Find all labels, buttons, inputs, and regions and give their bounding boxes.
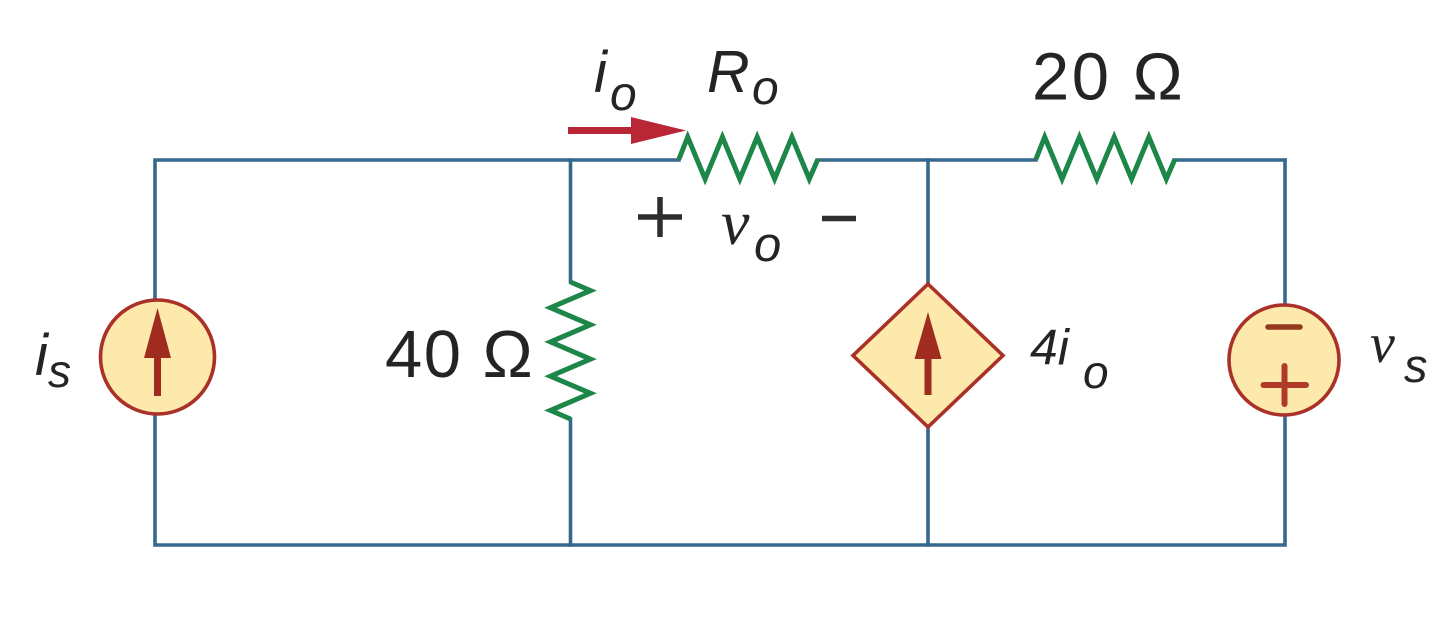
svg-text:v: v xyxy=(721,187,750,258)
svg-text:o: o xyxy=(610,68,637,121)
svg-text:v: v xyxy=(1370,313,1395,375)
svg-text:40 Ω: 40 Ω xyxy=(385,317,534,392)
svg-text:4i: 4i xyxy=(1030,320,1071,376)
svg-text:s: s xyxy=(1404,339,1428,392)
svg-text:20 Ω: 20 Ω xyxy=(1032,40,1185,115)
svg-text:i: i xyxy=(594,40,609,105)
svg-text:R: R xyxy=(707,39,750,105)
svg-text:s: s xyxy=(48,345,71,397)
svg-text:o: o xyxy=(754,218,781,272)
svg-text:o: o xyxy=(752,62,779,115)
svg-text:o: o xyxy=(1083,346,1109,398)
